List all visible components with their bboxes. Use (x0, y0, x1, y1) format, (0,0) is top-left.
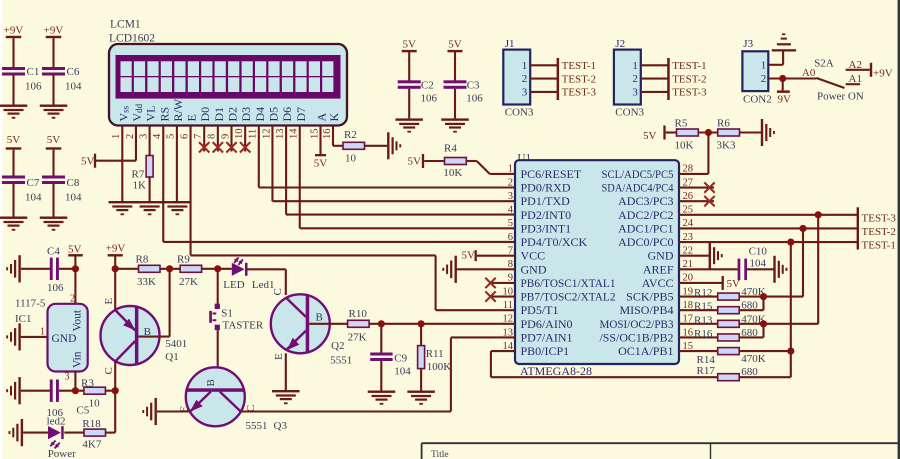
svg-text:LCD1602: LCD1602 (109, 33, 155, 45)
svg-text:CON2: CON2 (743, 93, 772, 105)
svg-text:J1: J1 (505, 38, 515, 50)
transistor Q1 5401 (101, 306, 160, 365)
wire R10 to U1 pin12 (369, 323, 515, 325)
transistor Q2 5551 (271, 294, 330, 353)
wire LCD pin14 D7 to U1 pin5 (299, 125, 301, 228)
resistor R3 10 (84, 387, 106, 394)
svg-text:+9V: +9V (44, 25, 64, 37)
svg-text:C10: C10 (749, 246, 768, 258)
resistor R9 27K (180, 265, 202, 272)
wire U1 pin23 to TEST-1 (679, 241, 858, 243)
U1 pin27 no-connect stub (679, 186, 714, 188)
svg-text:D1: D1 (212, 107, 226, 122)
svg-text:R13: R13 (694, 314, 713, 326)
junction (779, 75, 786, 82)
transistor Q3 5551 (186, 367, 245, 426)
junction R11 (418, 320, 425, 327)
svg-text:PD5/T1: PD5/T1 (521, 303, 559, 317)
wire (59, 268, 75, 270)
capacitor C10 104 (738, 259, 741, 281)
wire C10 to earth (747, 268, 774, 270)
resistor R13 470K (718, 320, 740, 327)
svg-text:106: 106 (47, 282, 64, 294)
earth ground left of Q3 (155, 398, 157, 425)
wire U1 pin19 (679, 296, 718, 298)
earth ground left of C4 (18, 255, 20, 282)
junction C9 (378, 320, 385, 327)
wire LED to Q2 collector (248, 268, 286, 270)
svg-text:5401: 5401 (165, 338, 187, 350)
wire (52, 38, 54, 67)
wire U1 pin25 to TEST-3 (679, 214, 858, 216)
svg-text:R9: R9 (177, 254, 190, 266)
wire (454, 89, 456, 119)
wire TEST-3 vertical (817, 215, 819, 324)
resistor R17 680 (718, 374, 740, 381)
wire U1 pin21 AREF to C10 (679, 268, 738, 270)
svg-text:TEST-3: TEST-3 (672, 87, 707, 99)
svg-text:R8: R8 (136, 254, 149, 266)
wire R2 to ground (365, 145, 388, 147)
earth ground right of U1 pin22 (709, 242, 711, 269)
svg-text:PD1/TXD: PD1/TXD (521, 194, 571, 208)
capacitor C5 106 (50, 380, 53, 402)
svg-text:S1: S1 (221, 307, 233, 319)
resistor R8 33K (139, 265, 161, 272)
svg-text:TEST-2: TEST-2 (862, 226, 896, 238)
wire to R11 (420, 324, 422, 346)
svg-text:PB7/TOSC2/XTAL2: PB7/TOSC2/XTAL2 (521, 290, 616, 304)
net bar TEST right (857, 207, 859, 249)
earth ground above J3 (772, 49, 796, 51)
power 5V to U1 pin20 AVCC (679, 282, 722, 284)
svg-text:2: 2 (761, 73, 767, 85)
wire LCD pin11 D4 to U1 pin2 (258, 125, 260, 187)
wire LCD pin8 no-connect stub (217, 125, 219, 151)
wire S1 to Q3 base (217, 330, 219, 388)
svg-text:TEST-3: TEST-3 (862, 212, 897, 224)
wire (52, 150, 54, 176)
svg-text:D5: D5 (266, 107, 280, 122)
svg-text:S2A: S2A (814, 58, 834, 70)
svg-text:Vout: Vout (72, 309, 84, 331)
wire R17 up to R14 node (739, 376, 791, 378)
junction R9/LED/S1 (214, 265, 221, 272)
wire to IC1 Vout pin2 (74, 269, 76, 304)
ground (395, 118, 423, 120)
capacitor C8 (42, 176, 65, 179)
svg-text:11: 11 (503, 300, 513, 311)
ground under C9 (368, 391, 396, 393)
svg-text:1117-5: 1117-5 (15, 297, 46, 309)
svg-text:ADC2/PC2: ADC2/PC2 (618, 208, 673, 222)
svg-text:6: 6 (179, 134, 190, 139)
svg-text:5V: 5V (462, 250, 476, 262)
sheet left white edge (0, 0, 2, 459)
wire R6 to earth (740, 131, 762, 133)
svg-text:7: 7 (193, 134, 204, 139)
resistor R7 1K (146, 156, 153, 178)
svg-text:R10: R10 (349, 308, 368, 320)
svg-text:C1: C1 (27, 66, 40, 78)
svg-text:TEST-1: TEST-1 (672, 60, 706, 72)
svg-text:PD0/RXD: PD0/RXD (521, 181, 571, 195)
LED led2 Power (48, 426, 61, 439)
resistor R6 3K3 (718, 129, 740, 136)
svg-text:SDA/ADC4/PC4: SDA/ADC4/PC4 (602, 181, 674, 195)
svg-text:ADC1/PC1: ADC1/PC1 (618, 221, 673, 235)
svg-text:5V: 5V (408, 156, 422, 168)
ground under Q2 (272, 390, 300, 392)
wire LCD pin5 R/W to ground (176, 125, 178, 201)
svg-text:PD4/T0/XCK: PD4/T0/XCK (521, 235, 588, 249)
svg-text:MOSI/OC2/PB3: MOSI/OC2/PB3 (600, 317, 674, 331)
svg-text:R/W: R/W (171, 98, 185, 121)
wire J3 pin1 to earth (768, 64, 783, 66)
svg-text:RS: RS (157, 107, 171, 122)
capacitor C1 (2, 67, 25, 70)
wire junction to S1 (217, 269, 219, 304)
svg-text:D4: D4 (253, 107, 267, 122)
svg-text:R18: R18 (82, 418, 101, 430)
resistor R12 470K (718, 293, 740, 300)
svg-text:PB6/TOSC1/XTAL1: PB6/TOSC1/XTAL1 (521, 276, 616, 290)
svg-text:C: C (103, 367, 115, 374)
svg-text:+9V: +9V (4, 25, 24, 37)
svg-text:led2: led2 (47, 416, 66, 428)
svg-text:ADC3/PC3: ADC3/PC3 (618, 194, 673, 208)
ground under R11 (407, 391, 435, 393)
svg-text:GND: GND (521, 262, 547, 276)
svg-text:1: 1 (40, 327, 45, 338)
svg-text:B: B (205, 379, 217, 386)
svg-text:R16: R16 (694, 328, 713, 340)
svg-text:9V: 9V (778, 93, 792, 105)
svg-text:5V: 5V (314, 158, 328, 170)
junction R5/R6 (705, 129, 712, 136)
svg-text:D0: D0 (198, 107, 212, 122)
svg-text:C6: C6 (67, 66, 80, 78)
svg-text:15: 15 (309, 129, 320, 140)
wire R16 up to R13 node (739, 336, 763, 338)
svg-text:SCK/PB5: SCK/PB5 (626, 290, 673, 304)
svg-text:9: 9 (220, 134, 231, 139)
svg-text:GND: GND (52, 333, 77, 345)
wire C9 to ground (380, 361, 382, 391)
svg-text:D3: D3 (239, 107, 253, 122)
svg-text:10K: 10K (443, 167, 462, 179)
svg-text:GND: GND (648, 249, 674, 263)
ground (0, 105, 27, 107)
wire LCD pin13 D6 to U1 pin4 (285, 125, 287, 214)
svg-text:Vin: Vin (72, 351, 84, 368)
svg-text:470K: 470K (741, 353, 766, 365)
wire LCD pin7 no-connect stub (203, 125, 205, 151)
wire U1 pin8 GND (457, 268, 516, 270)
U1 pin10 no-connect stub (491, 296, 516, 298)
svg-text:E: E (185, 114, 199, 121)
wire (59, 390, 84, 392)
wire Q2 base to R10 (309, 323, 347, 325)
svg-text:TEST-1: TEST-1 (862, 240, 896, 252)
wire (424, 160, 444, 162)
svg-text:Power: Power (48, 448, 76, 459)
wire (739, 323, 818, 325)
wire U1 pin17 (679, 323, 718, 325)
node A1 contact (846, 83, 860, 85)
LED Led1 (232, 263, 245, 276)
svg-text:33K: 33K (137, 276, 156, 288)
svg-text:28: 28 (683, 164, 694, 175)
capacitor C4 106 (50, 258, 53, 280)
svg-text:B: B (316, 311, 323, 323)
power 5V to LCD Vdd (94, 154, 96, 168)
resistor R11 100K (418, 346, 425, 369)
wire U1 pin16 (679, 336, 718, 338)
capacitor C7 (2, 176, 25, 179)
wire (666, 131, 677, 133)
wire IC1 pin3 Vin (74, 372, 76, 391)
wire R7 to ground (149, 177, 151, 201)
junction +9V/R8/Q1 (112, 265, 119, 272)
wire (12, 150, 14, 176)
svg-text:Q1: Q1 (165, 351, 178, 363)
wire J1 pin2 (530, 78, 557, 80)
wire down to R18 (114, 391, 116, 433)
wire (408, 89, 410, 119)
capacitor C3 106 (444, 80, 467, 83)
net bar J2 (667, 58, 670, 100)
wire U1 pin18 (679, 309, 718, 311)
net bar J1 (557, 58, 560, 100)
wire Q2 emitter to ground (285, 353, 287, 390)
svg-text:CON3: CON3 (505, 106, 534, 118)
resistor R5 10K (677, 129, 699, 136)
svg-text:+9V: +9V (873, 68, 893, 80)
svg-text:C8: C8 (67, 177, 80, 189)
junction 5V/C4/IC1 (72, 265, 79, 272)
wire U1 pin15 (679, 350, 718, 352)
wire R5/R6 node down to U1 pin28 (707, 133, 709, 174)
svg-text:/SS/OC1B/PB2: /SS/OC1B/PB2 (600, 330, 674, 344)
ground (441, 118, 469, 120)
svg-text:5: 5 (508, 218, 513, 229)
ground under R7 (136, 201, 164, 203)
wire LCD pin6 E route to U1 pin11 (190, 125, 192, 255)
svg-text:TASTER: TASTER (223, 319, 264, 331)
svg-text:AREF: AREF (643, 262, 674, 276)
earth ground right of R6 (761, 119, 763, 146)
svg-text:8: 8 (207, 134, 218, 139)
ground under LCD pin1 (109, 201, 137, 203)
svg-text:100K: 100K (427, 361, 452, 373)
wire U1 pin22 GND (679, 255, 710, 257)
wire U1 pin14 route to R17 (491, 350, 515, 352)
capacitor C2 106 (398, 80, 421, 83)
svg-text:R15: R15 (694, 301, 713, 313)
svg-text:R17: R17 (697, 365, 716, 377)
wire TEST-2 vertical (802, 228, 804, 296)
svg-text:5V: 5V (643, 130, 657, 142)
wire (408, 52, 410, 81)
ground (40, 105, 68, 107)
svg-text:1: 1 (508, 164, 513, 175)
svg-text:R11: R11 (426, 348, 444, 360)
svg-text:3: 3 (138, 134, 149, 139)
svg-text:R6: R6 (717, 118, 730, 130)
svg-text:3: 3 (508, 191, 513, 202)
svg-text:106: 106 (421, 92, 438, 104)
svg-text:E: E (273, 353, 285, 360)
svg-text:PD2/INT0: PD2/INT0 (521, 208, 572, 222)
wire LCD pin16 K to R2 (332, 125, 334, 145)
svg-text:A1: A1 (849, 73, 862, 85)
ground (0, 217, 27, 219)
svg-text:MISO/PB4: MISO/PB4 (619, 303, 673, 317)
wire LCD pin9 no-connect stub (230, 125, 232, 151)
svg-text:J2: J2 (615, 38, 625, 50)
resistor R16 680 (718, 334, 740, 341)
capacitor C6 (42, 67, 65, 70)
wire LCD pin15 A to 5V (319, 125, 321, 154)
svg-text:2: 2 (522, 73, 528, 85)
svg-text:Title: Title (431, 450, 449, 459)
wire LCD pin4 RS route to U1 pin6 (162, 125, 164, 241)
wire LCD pin10 no-connect stub (244, 125, 246, 151)
svg-text:Q3: Q3 (274, 420, 288, 432)
svg-text:10: 10 (89, 397, 101, 409)
capacitor C9 104 (370, 353, 392, 356)
svg-text:6: 6 (508, 232, 513, 243)
earth ground right of R2 (387, 132, 389, 159)
svg-text:104: 104 (65, 81, 82, 93)
svg-text:1: 1 (761, 59, 767, 71)
wire Q1 base (138, 336, 169, 338)
U1 pin9 no-connect stub (491, 282, 516, 284)
power 5V to U1 VCC pin7 (475, 250, 477, 261)
svg-text:C7: C7 (27, 177, 40, 189)
svg-text:PD6/AIN0: PD6/AIN0 (521, 317, 573, 331)
wire (160, 268, 180, 270)
wire +9V to Q1 emitter (114, 269, 116, 310)
svg-text:PB0/ICP1: PB0/ICP1 (521, 344, 570, 358)
svg-text:+9V: +9V (106, 243, 126, 255)
svg-text:E: E (103, 298, 115, 305)
wire J2 pin2 (641, 78, 668, 80)
wire (202, 268, 232, 270)
svg-text:R12: R12 (694, 287, 712, 299)
svg-text:OC1A/PB1: OC1A/PB1 (618, 344, 673, 358)
svg-text:2: 2 (632, 73, 638, 85)
ground (40, 217, 68, 219)
svg-text:R5: R5 (675, 118, 688, 130)
svg-text:K: K (327, 113, 341, 122)
svg-text:VL: VL (144, 106, 158, 122)
wire to R8 (115, 268, 138, 270)
U1 pin26 no-connect stub (679, 200, 714, 202)
junction R3/Q1-collector/R18 (112, 387, 119, 394)
svg-text:C: C (272, 288, 284, 295)
wire Q3 emitter to earth (157, 410, 190, 412)
pushbutton S1 TASTER (215, 304, 220, 309)
svg-text:TEST-2: TEST-2 (672, 73, 706, 85)
svg-text:ATMEGA8-28: ATMEGA8-28 (520, 364, 592, 378)
resistor R18 4K7 (84, 429, 106, 436)
svg-text:4K7: 4K7 (82, 439, 101, 451)
svg-text:5: 5 (166, 134, 177, 139)
svg-text:PC6/RESET: PC6/RESET (521, 167, 582, 181)
wire J2 pin3 (641, 91, 668, 93)
svg-text:R2: R2 (344, 129, 357, 141)
wire (454, 52, 456, 81)
svg-text:104: 104 (65, 192, 82, 204)
wire LCD pin12 D5 to U1 pin3 (271, 125, 273, 201)
power 9V port (782, 79, 784, 91)
earth ground left of led2 (21, 419, 23, 446)
junction C5/Vin/R3 (72, 387, 79, 394)
svg-text:106: 106 (25, 81, 42, 93)
wire J3 pin2 to switch (768, 77, 816, 79)
svg-text:14: 14 (289, 128, 300, 139)
svg-text:3: 3 (632, 87, 638, 99)
svg-text:PD3/INT1: PD3/INT1 (521, 221, 572, 235)
wire U1 pin24 to TEST-2 (679, 227, 858, 229)
svg-text:CON3: CON3 (615, 106, 644, 118)
wire (739, 350, 791, 352)
svg-text:LCM1: LCM1 (110, 19, 141, 31)
wire Q3 collector to U1 pin13 (241, 410, 451, 412)
wire J2 pin1 (641, 64, 668, 66)
resistor R10 27K (348, 320, 370, 327)
svg-text:2: 2 (125, 134, 136, 139)
svg-text:Q2: Q2 (331, 340, 344, 352)
wire R18 to node (106, 432, 116, 434)
wire R11 to ground (420, 369, 422, 391)
svg-text:D6: D6 (280, 107, 294, 122)
svg-text:3K3: 3K3 (717, 139, 736, 151)
svg-text:11: 11 (248, 129, 259, 139)
power +9V bar (870, 63, 872, 77)
no-connect X (213, 142, 223, 152)
svg-text:1: 1 (522, 60, 528, 72)
title block (422, 442, 900, 444)
svg-text:12: 12 (261, 129, 272, 140)
svg-text:104: 104 (750, 258, 767, 270)
svg-text:106: 106 (466, 92, 483, 104)
wire Q1 collector (114, 362, 116, 391)
wire (12, 184, 14, 217)
svg-text:A2: A2 (849, 59, 862, 71)
svg-text:Power ON: Power ON (817, 90, 864, 102)
wire (21, 390, 50, 392)
svg-text:27K: 27K (348, 331, 367, 343)
svg-text:5V: 5V (7, 134, 21, 146)
svg-text:5V: 5V (81, 156, 95, 168)
wire R15 up to R12 node (739, 309, 763, 311)
svg-text:D2: D2 (226, 107, 240, 122)
svg-text:104: 104 (394, 365, 411, 377)
svg-text:C2: C2 (421, 79, 434, 91)
svg-text:5551: 5551 (330, 355, 352, 367)
ground under LCD pin5 (164, 201, 192, 203)
svg-text:R4: R4 (444, 143, 457, 155)
wire to C9 (380, 324, 382, 353)
svg-text:C3: C3 (467, 79, 480, 91)
resistor R14 470K (718, 348, 740, 355)
wire (698, 131, 717, 133)
resistor R2 10 (343, 142, 365, 149)
svg-text:J3: J3 (743, 38, 753, 50)
